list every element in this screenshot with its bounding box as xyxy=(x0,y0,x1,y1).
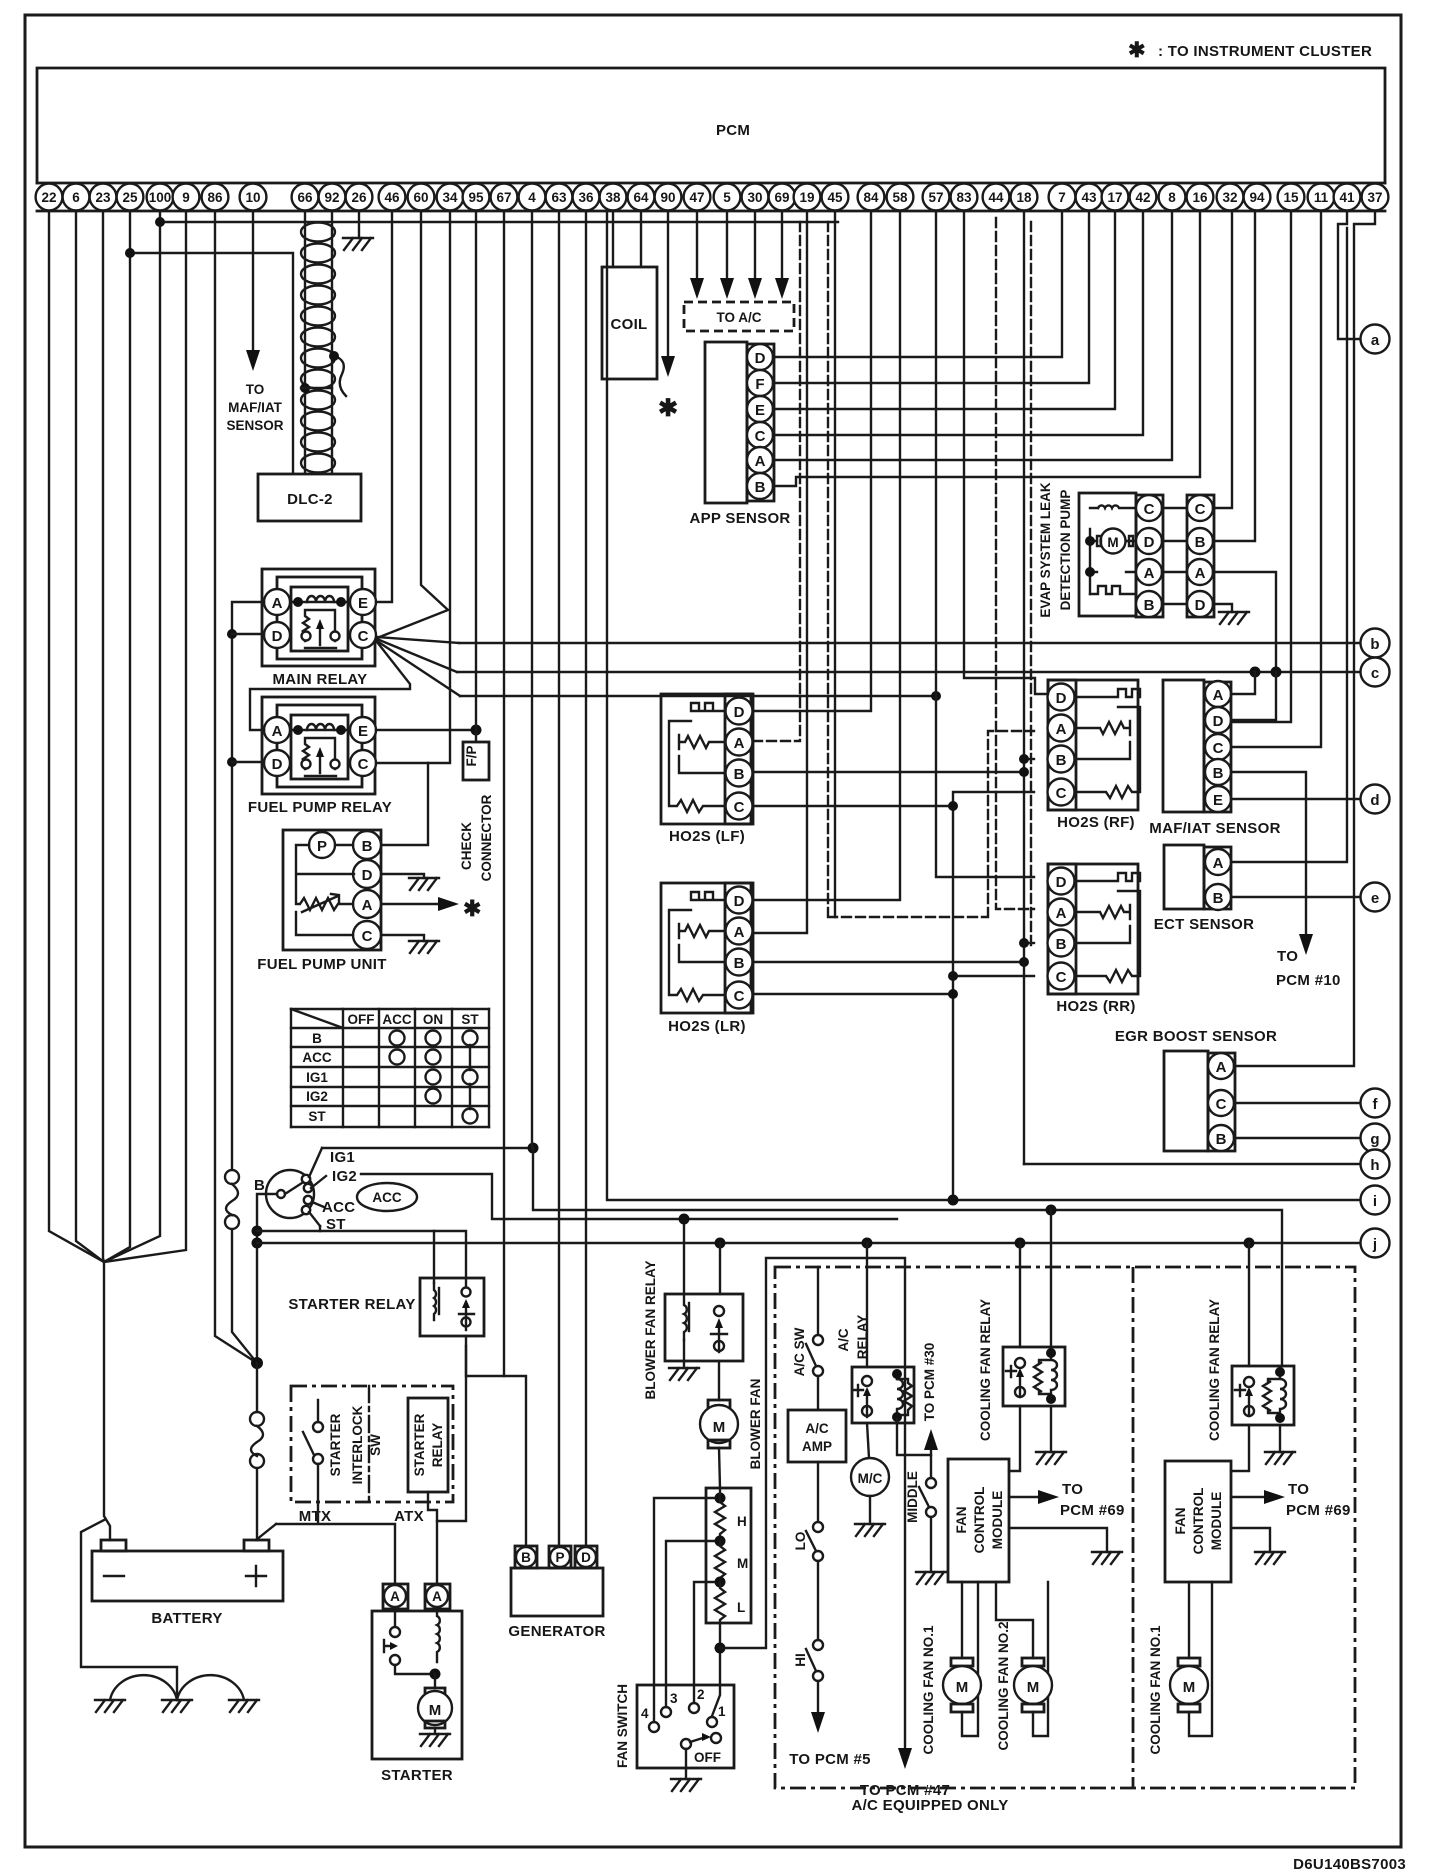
wire left module to cooling fan no.2 motor xyxy=(996,1582,1033,1658)
wire pin 10 to MAF/IAT arrow xyxy=(252,211,254,352)
MAF/IAT pin column xyxy=(1204,682,1231,812)
svg-text:HO2S (RF): HO2S (RF) xyxy=(1057,814,1135,831)
svg-text:A: A xyxy=(272,723,283,740)
wire pin 6 to ground funnel xyxy=(76,211,104,1262)
wire main relay C to fuel pump relay A xyxy=(250,642,410,730)
svg-text:HO2S (RR): HO2S (RR) xyxy=(1056,998,1135,1015)
PCM pin 36 xyxy=(573,184,600,211)
battery positive junction xyxy=(251,1357,263,1369)
PCM pin 67 xyxy=(491,184,518,211)
ignition switch table xyxy=(291,1009,489,1127)
ground (M/C) xyxy=(855,1524,885,1536)
svg-text:C: C xyxy=(734,988,745,1005)
wire+label IG1 xyxy=(309,1148,322,1177)
svg-text:B: B xyxy=(734,766,745,783)
PCM pin 45 xyxy=(822,184,849,211)
svg-text:A: A xyxy=(1056,721,1067,738)
svg-text:A/C EQUIPPED ONLY: A/C EQUIPPED ONLY xyxy=(851,1797,1008,1814)
HI switch xyxy=(806,1640,823,1714)
svg-text:MAF/IAT: MAF/IAT xyxy=(228,400,282,415)
wire A/C relay coil to PCM 30 line xyxy=(897,1419,931,1455)
svg-text:C: C xyxy=(734,799,745,816)
wire pin 36 to generator D xyxy=(585,211,587,1546)
svg-text:D: D xyxy=(1213,713,1224,730)
wire APP E to pin 17 xyxy=(773,211,1115,409)
wire main relay C fan to node c line xyxy=(377,639,457,672)
wire A/C feed from pin at x755 xyxy=(754,211,756,282)
svg-text:LO: LO xyxy=(793,1532,808,1551)
svg-text:IG1: IG1 xyxy=(330,1149,355,1166)
svg-text:TO PCM #5: TO PCM #5 xyxy=(789,1751,871,1768)
wire MAF A to node c xyxy=(1231,672,1255,694)
wire A/C feed from pin at x727 xyxy=(726,211,728,282)
wire right module ground xyxy=(1231,1528,1270,1552)
svg-text:AMP: AMP xyxy=(802,1439,832,1454)
svg-text:A: A xyxy=(362,897,373,914)
svg-text:EGR BOOST SENSOR: EGR BOOST SENSOR xyxy=(1115,1028,1277,1045)
wire MAF E to node d xyxy=(1231,798,1360,800)
magnetic clutch M/C xyxy=(851,1458,889,1524)
svg-text:A: A xyxy=(1213,855,1224,872)
wire B+ to starter relay contact xyxy=(257,1231,466,1290)
wire pin 25 tap to DLC-2 xyxy=(130,253,293,474)
wire pin 95 to F/P node xyxy=(475,211,477,742)
motor M cooling fan no.1 (A/C) xyxy=(943,1658,981,1712)
pin D (HO2S (LR)) xyxy=(726,887,753,914)
pin P (fuel pump unit) xyxy=(309,832,335,858)
svg-text:d: d xyxy=(1370,792,1379,809)
wire right relay coil to ground xyxy=(1279,1425,1281,1452)
svg-text:FUEL PUMP UNIT: FUEL PUMP UNIT xyxy=(257,956,387,973)
PCM pin 44 xyxy=(983,184,1010,211)
svg-text:SENSOR: SENSOR xyxy=(226,418,283,433)
ground (pin 26) xyxy=(343,238,373,250)
svg-text:4: 4 xyxy=(528,190,536,205)
wire+label ACC xyxy=(312,1202,324,1207)
wire APP B to pin 16 xyxy=(773,211,1200,486)
svg-text:INTERLOCK: INTERLOCK xyxy=(350,1405,365,1484)
ground (battery strap 3) xyxy=(229,1700,259,1712)
svg-text:64: 64 xyxy=(633,190,649,205)
wire ignition B to battery junction xyxy=(257,1194,277,1363)
wire+label IG2 xyxy=(311,1176,326,1188)
label FAN CONTROL MODULE (left) xyxy=(954,1487,1005,1554)
svg-text:TO PCM #30: TO PCM #30 xyxy=(922,1343,937,1422)
svg-text:B: B xyxy=(1213,890,1224,907)
svg-text:C: C xyxy=(362,928,373,945)
svg-text:E: E xyxy=(358,723,368,740)
PCM pin 69 xyxy=(769,184,796,211)
node g xyxy=(1361,1124,1390,1153)
wire LR B to bus xyxy=(753,961,1024,963)
A/C amplifier box xyxy=(788,1410,846,1462)
wire B+ rail to node j xyxy=(257,1242,1360,1244)
svg-text:FAN: FAN xyxy=(1173,1508,1188,1535)
svg-text:A: A xyxy=(432,1589,442,1604)
pin B (EGR boost) xyxy=(1208,1125,1234,1151)
svg-text:B: B xyxy=(521,1550,531,1565)
wire pin 92 shielded to DLC-2 xyxy=(331,211,333,474)
relay FUEL PUMP RELAY middle box xyxy=(277,705,362,787)
ground (starter) xyxy=(420,1734,450,1746)
wire right relay switch to fan control module xyxy=(1231,1425,1249,1471)
motor M cooling fan no.1 (right) xyxy=(1170,1658,1208,1712)
PCM pin 11 xyxy=(1308,184,1335,211)
pin C (HO2S (RF)) xyxy=(1048,779,1075,806)
svg-text:CHECK: CHECK xyxy=(459,822,474,870)
svg-text:✱: ✱ xyxy=(1128,39,1146,62)
pin B (HO2S (LF)) xyxy=(726,760,753,787)
svg-text:25: 25 xyxy=(122,190,138,205)
pin D (main relay) xyxy=(264,622,290,648)
node j xyxy=(1361,1229,1390,1258)
svg-text:BLOWER FAN: BLOWER FAN xyxy=(748,1379,763,1470)
wire main relay C to pin 60 xyxy=(377,211,448,638)
generator pins B P D xyxy=(515,1546,537,1568)
ground strap arc 2 xyxy=(177,1675,244,1700)
label CHECK CONNECTOR xyxy=(459,794,494,881)
svg-text:1: 1 xyxy=(718,1704,726,1719)
node c xyxy=(1361,658,1390,687)
ground (battery strap 1) xyxy=(95,1700,125,1712)
node a xyxy=(1361,325,1390,354)
wire pin 90 tachometer signal xyxy=(667,211,669,358)
wire A/C feed from pin at x697 xyxy=(696,211,698,282)
svg-text:E: E xyxy=(755,402,765,419)
svg-text:ECT SENSOR: ECT SENSOR xyxy=(1154,916,1255,933)
wire j rail to blower fan relay switch xyxy=(719,1243,721,1294)
fan switch terminals xyxy=(649,1703,721,1749)
wire RR B to bus xyxy=(1024,942,1034,944)
battery box xyxy=(92,1540,283,1601)
PCM pin 47 xyxy=(684,184,711,211)
relay STARTER RELAY xyxy=(420,1278,484,1336)
wire resistor block to fan switch 1 xyxy=(712,1623,720,1716)
svg-text:COOLING FAN NO.1: COOLING FAN NO.1 xyxy=(921,1625,936,1755)
ST column link xyxy=(469,1045,471,1109)
APP sensor pin column xyxy=(747,344,774,501)
svg-text:B: B xyxy=(312,1031,322,1046)
pin D (fuel pump unit) xyxy=(353,860,381,888)
node h xyxy=(1361,1150,1390,1179)
svg-text:ST: ST xyxy=(461,1012,479,1027)
svg-text:: TO INSTRUMENT CLUSTER: : TO INSTRUMENT CLUSTER xyxy=(1158,43,1372,60)
svg-text:MTX: MTX xyxy=(299,1508,332,1525)
svg-text:D: D xyxy=(1056,690,1067,707)
motor M (EVAP pump) xyxy=(1097,529,1136,573)
wire EVAP C to pin 32 xyxy=(1213,211,1232,508)
motor M cooling fan no.2 xyxy=(1014,1658,1052,1712)
labels fan switch positions xyxy=(641,1687,726,1765)
A/C switch xyxy=(806,1267,823,1410)
ACC connector oval xyxy=(357,1183,417,1211)
svg-text:j: j xyxy=(1372,1236,1377,1253)
PCM pin 18 xyxy=(1011,184,1038,211)
svg-text:P: P xyxy=(317,838,327,855)
motor M (blower fan) xyxy=(700,1361,738,1488)
svg-text:A/C: A/C xyxy=(836,1328,851,1352)
ECT sensor body xyxy=(1164,845,1204,909)
svg-text:i: i xyxy=(1373,1193,1377,1210)
svg-text:86: 86 xyxy=(207,190,223,205)
svg-text:IG1: IG1 xyxy=(306,1070,328,1085)
svg-text:a: a xyxy=(1371,332,1380,349)
svg-text:M: M xyxy=(1027,1679,1040,1696)
MAF/IAT sensor body xyxy=(1163,680,1204,812)
svg-text:38: 38 xyxy=(605,190,621,205)
PCM pin 6 xyxy=(63,184,90,211)
PCM pin 58 xyxy=(887,184,914,211)
PCM pin 34 xyxy=(437,184,464,211)
PCM pin 100 xyxy=(147,184,174,211)
node e xyxy=(1361,883,1390,912)
wire main relay C fan to node b line xyxy=(377,637,459,643)
svg-text:18: 18 xyxy=(1016,190,1032,205)
svg-text:A/C: A/C xyxy=(805,1421,829,1436)
PCM pin 16 xyxy=(1187,184,1214,211)
fan control module (left) xyxy=(948,1459,1009,1582)
label STARTER INTERLOCK SW xyxy=(328,1405,383,1484)
pin D (HO2S (RR)) xyxy=(1048,868,1075,895)
svg-text:CONNECTOR: CONNECTOR xyxy=(479,794,494,881)
wire left relay coil to ground xyxy=(1050,1406,1052,1452)
svg-text:2: 2 xyxy=(697,1687,705,1702)
svg-text:C: C xyxy=(358,756,369,773)
pin B (EVAP harness) xyxy=(1187,528,1213,554)
svg-text:TO: TO xyxy=(1062,1481,1083,1498)
PCM pin 9 xyxy=(173,184,200,211)
PCM pin 8 xyxy=(1159,184,1186,211)
pin E (MAF/IAT) xyxy=(1205,786,1231,812)
APP sensor body xyxy=(705,342,747,503)
wire MAF D to pin 15 xyxy=(1231,211,1291,722)
svg-text:CONTROL: CONTROL xyxy=(1191,1488,1206,1555)
wire pump C to ground xyxy=(381,935,424,941)
relay MAIN RELAY coil and contact symbol xyxy=(291,596,348,648)
pin C (fuel pump unit) xyxy=(353,921,381,949)
svg-text:69: 69 xyxy=(774,190,789,205)
PCM pin 42 xyxy=(1130,184,1157,211)
pin E (fuel pump relay) xyxy=(350,717,376,743)
shielded wire pin 44 to RR A xyxy=(996,218,1034,909)
label TO PCM #69 (left) xyxy=(1060,1481,1125,1519)
svg-text:FUEL PUMP RELAY: FUEL PUMP RELAY xyxy=(248,799,392,816)
svg-text:✱: ✱ xyxy=(463,896,481,921)
svg-text:95: 95 xyxy=(468,190,484,205)
wire pin 4 fan control run xyxy=(532,211,1282,1366)
wire sensor bus to node h xyxy=(1024,1163,1360,1165)
MIDDLE pressure switch xyxy=(919,1478,936,1572)
label TO PCM #69 (right) xyxy=(1286,1481,1351,1519)
svg-text:COOLING FAN NO.1: COOLING FAN NO.1 xyxy=(1148,1625,1163,1755)
svg-text:94: 94 xyxy=(1249,190,1265,205)
svg-text:BATTERY: BATTERY xyxy=(151,1610,222,1627)
svg-text:H: H xyxy=(737,1514,747,1529)
table contact circles xyxy=(390,1031,478,1124)
wire ATX relay to starter A2 xyxy=(428,1492,437,1583)
svg-text:F/P: F/P xyxy=(464,745,479,766)
EVAP pump internals xyxy=(1090,505,1136,604)
EVAP harness connector column 2 xyxy=(1187,495,1214,617)
svg-text:C: C xyxy=(1056,785,1067,802)
pin A (EGR boost) xyxy=(1208,1053,1234,1079)
svg-text:100: 100 xyxy=(149,190,172,205)
svg-text:DLC-2: DLC-2 xyxy=(287,491,333,508)
resistor M xyxy=(715,1541,725,1583)
wire pin 83 to HO2S RF D xyxy=(964,211,1048,694)
A/C enclosure divider xyxy=(1132,1267,1135,1788)
svg-text:ACC: ACC xyxy=(302,1050,331,1065)
wire LF B to bus xyxy=(753,771,1024,773)
fan switch rotor arm xyxy=(686,1737,706,1779)
PCM pin 38 xyxy=(600,184,627,211)
PCM pin 92 xyxy=(319,184,346,211)
relay COOLING FAN RELAY (left) xyxy=(1003,1347,1065,1406)
ECT pin column xyxy=(1204,847,1231,909)
svg-text:STARTER: STARTER xyxy=(328,1413,343,1476)
wire pin 63 to generator P xyxy=(558,211,560,1546)
wires EVAP column links xyxy=(1162,508,1187,604)
pin E (APP sensor) xyxy=(747,396,773,422)
wire A/C relay to M/C clutch xyxy=(867,1423,869,1458)
wire main relay feed joins pin 57 xyxy=(460,695,936,697)
svg-text:19: 19 xyxy=(799,190,814,205)
wire A/C feed from pin at x782 xyxy=(781,211,783,282)
wire main relay E to pin 46 xyxy=(376,211,392,602)
relay FUEL PUMP RELAY inner box xyxy=(291,715,348,779)
shield coil around DLC-2 wires xyxy=(301,223,335,473)
fan control module (right) xyxy=(1165,1461,1231,1582)
pin D (APP sensor) xyxy=(747,344,773,370)
table headers xyxy=(302,1012,479,1124)
wire left module to cooling fan no.1 motor xyxy=(961,1582,963,1658)
svg-text:APP SENSOR: APP SENSOR xyxy=(689,510,790,527)
svg-text:C: C xyxy=(358,628,369,645)
wire APP D to pin 7 xyxy=(773,211,1062,357)
wire pin 38 to coil xyxy=(612,211,614,267)
svg-text:D: D xyxy=(1195,597,1206,614)
node i xyxy=(1361,1186,1390,1215)
svg-text:A: A xyxy=(1144,565,1155,582)
svg-text:47: 47 xyxy=(689,190,704,205)
PCM pin 25 xyxy=(117,184,144,211)
wire left module ground xyxy=(1009,1528,1107,1552)
pin A (starter 2) xyxy=(425,1584,450,1609)
oxygen sensor HO2S (LF) box xyxy=(661,694,751,824)
pin A (HO2S (LR)) xyxy=(726,918,753,945)
pin C (HO2S (LR)) xyxy=(726,982,753,1009)
svg-text:15: 15 xyxy=(1283,190,1299,205)
wire pin 9 to ground funnel xyxy=(104,211,186,1262)
PCM pin 41 xyxy=(1334,184,1361,211)
wire cooling fan no.1 return xyxy=(962,1582,978,1736)
svg-text:D: D xyxy=(272,756,283,773)
svg-text:M: M xyxy=(1183,1679,1196,1696)
wire battery positive to starter feed xyxy=(256,1524,276,1540)
svg-text:D: D xyxy=(362,867,373,884)
wire pump A diagnostic arrow xyxy=(381,903,440,905)
wire blower relay coil to ground xyxy=(683,1340,685,1368)
fuel pump unit box xyxy=(283,830,381,950)
wire j rail to A/C relay switch xyxy=(866,1243,868,1367)
svg-text:C: C xyxy=(1213,740,1224,757)
svg-text:90: 90 xyxy=(660,190,675,205)
svg-text:TO: TO xyxy=(1277,948,1298,965)
sensor ground bus (C pins to node i) xyxy=(753,792,1034,1199)
shield tap bar xyxy=(301,387,332,389)
connector DLC-2 xyxy=(258,474,361,521)
pin C (EVAP pump) xyxy=(1136,495,1162,521)
PCM pin 5 xyxy=(714,184,741,211)
shielded wire pin 18 signal bus to node h xyxy=(1023,211,1025,1164)
svg-text:B: B xyxy=(734,955,745,972)
PCM pin 95 xyxy=(463,184,490,211)
resistor H xyxy=(715,1488,725,1538)
wire pin 67 joins generator B feed xyxy=(503,211,505,1376)
ground (fan switch) xyxy=(671,1779,701,1791)
svg-text:STARTER: STARTER xyxy=(412,1413,427,1476)
wire ECT B to node e xyxy=(1231,896,1360,898)
PCM pin 23 xyxy=(90,184,117,211)
svg-text:46: 46 xyxy=(384,190,400,205)
pin E (main relay) xyxy=(350,589,376,615)
pin C (HO2S (LF)) xyxy=(726,793,753,820)
PCM pin 64 xyxy=(628,184,655,211)
svg-text:84: 84 xyxy=(863,190,879,205)
svg-text:HO2S (LF): HO2S (LF) xyxy=(669,828,745,845)
pin D (HO2S (LF)) xyxy=(726,698,753,725)
svg-text:4: 4 xyxy=(641,1706,649,1721)
fan switch box xyxy=(637,1685,734,1768)
wire+label ST xyxy=(309,1212,320,1226)
wire IG2 to blower fan relay coil xyxy=(683,1219,685,1294)
svg-text:B: B xyxy=(1144,597,1155,614)
PCM pin 7 xyxy=(1049,184,1076,211)
wire right module to cooling fan no.1 motor xyxy=(1188,1582,1190,1658)
PCM pin 46 xyxy=(379,184,406,211)
svg-text:26: 26 xyxy=(351,190,367,205)
svg-text:MAIN RELAY: MAIN RELAY xyxy=(273,671,368,688)
svg-text:c: c xyxy=(1371,665,1379,682)
PCM pin 83 xyxy=(951,184,978,211)
wire IG1/pin4 run to node i xyxy=(607,211,1360,1200)
pin A (fuel pump relay) xyxy=(264,717,290,743)
PCM pin 10 xyxy=(240,184,267,211)
pin A (main relay) xyxy=(264,589,290,615)
label TO PCM #10 xyxy=(1276,948,1341,989)
svg-text:HI: HI xyxy=(793,1653,808,1667)
connector TO A/C (dashed) xyxy=(684,302,794,331)
svg-text:COIL: COIL xyxy=(610,316,647,333)
PCM pin 86 xyxy=(202,184,229,211)
PCM pin 30 xyxy=(742,184,769,211)
label TO MAF/IAT SENSOR xyxy=(226,382,283,433)
svg-text:B: B xyxy=(1056,752,1067,769)
svg-text:MIDDLE: MIDDLE xyxy=(905,1471,920,1523)
svg-text:16: 16 xyxy=(1192,190,1208,205)
wire pump P to B xyxy=(336,844,353,846)
wire cooling fan no.2 return xyxy=(1033,1582,1048,1736)
wire IG1 to pin 4 xyxy=(322,1147,533,1149)
wire j rail to left cooling fan relay xyxy=(1019,1243,1021,1347)
wire EGR B to node g xyxy=(1234,1137,1360,1139)
svg-text:C: C xyxy=(1216,1096,1227,1113)
svg-text:B: B xyxy=(1213,765,1224,782)
svg-text:COOLING FAN RELAY: COOLING FAN RELAY xyxy=(1207,1299,1222,1441)
pin C (APP sensor) xyxy=(747,422,773,448)
wire pin 34 joins pump feed xyxy=(428,211,450,763)
shielded wire pin 19 to LF A / LR A xyxy=(753,211,807,933)
